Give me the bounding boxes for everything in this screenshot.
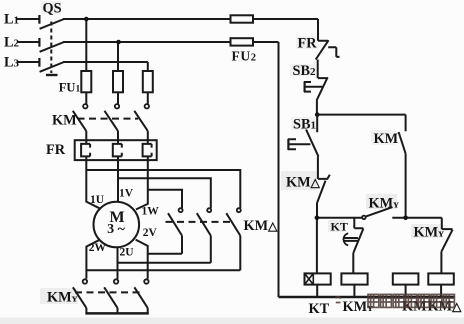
svg-text:1V: 1V — [119, 188, 134, 200]
svg-text:KMʏ: KMʏ — [369, 196, 400, 212]
svg-text:KM△: KM△ — [244, 218, 279, 234]
svg-text:QS: QS — [43, 1, 62, 17]
svg-text:FR: FR — [46, 142, 66, 158]
svg-text:KT: KT — [309, 301, 330, 317]
svg-text:FR: FR — [298, 36, 318, 52]
svg-text:SB2: SB2 — [293, 63, 317, 79]
svg-text:KM: KM — [374, 131, 399, 147]
svg-text:2U: 2U — [120, 247, 135, 259]
svg-text:KT: KT — [331, 220, 348, 234]
svg-text:KM△: KM△ — [428, 299, 463, 315]
svg-text:KMʏ: KMʏ — [414, 225, 445, 241]
svg-text:KMʏ: KMʏ — [47, 290, 78, 306]
svg-text:KM△: KM△ — [286, 175, 321, 191]
svg-text:SB1: SB1 — [293, 117, 316, 133]
svg-text:KM: KM — [52, 113, 77, 129]
svg-text:3 ~: 3 ~ — [107, 222, 126, 237]
svg-text:L3: L3 — [4, 55, 20, 71]
svg-text:L2: L2 — [4, 35, 20, 51]
svg-text:2V: 2V — [143, 227, 158, 239]
svg-text:L1: L1 — [4, 12, 19, 28]
svg-text:1W: 1W — [142, 206, 160, 218]
svg-text:2W: 2W — [89, 242, 107, 254]
svg-text:1U: 1U — [90, 194, 105, 206]
